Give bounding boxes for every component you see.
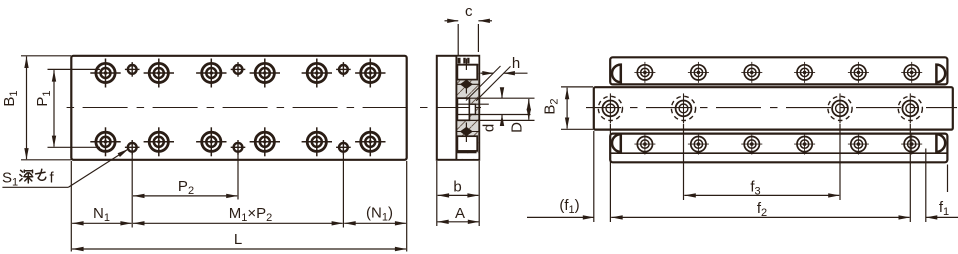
svg-text:f3: f3	[750, 179, 760, 198]
dimension B2 extension top	[561, 86, 593, 88]
counterbore hole bottom row 2	[144, 127, 174, 156]
extension line D top	[470, 97, 535, 99]
counterbore hole top row 2	[144, 59, 174, 88]
extension line right edge lower	[406, 161, 408, 252]
dimension M1xP2 line	[133, 222, 343, 224]
centerline right view	[586, 107, 957, 109]
svg-text:D: D	[509, 122, 526, 133]
section gray fill with hole cutouts	[456, 57, 478, 159]
counterbore hole top row 5	[302, 59, 332, 88]
dimension d line	[501, 89, 503, 99]
bottom rail screw 2	[688, 134, 709, 155]
counterbore hole bottom row 5	[302, 127, 332, 156]
top rail screw 2	[688, 62, 709, 83]
dimension P1 extension bottom	[48, 146, 101, 148]
S1 hole bottom row 2	[231, 140, 246, 155]
table hole 4	[898, 93, 922, 123]
svg-text:f: f	[50, 170, 55, 187]
rail end cap top-right	[936, 65, 945, 83]
extension line S1 hole 3	[342, 153, 344, 228]
dimension (N1) line	[344, 222, 406, 224]
top rail screw 6	[901, 62, 922, 83]
dimension (f1) line	[527, 216, 594, 218]
extension line step top	[457, 103, 488, 105]
dimension B2 extension bottom	[561, 128, 593, 130]
S1 hole bottom row 3	[336, 140, 351, 155]
extension line left edge lower	[70, 161, 72, 252]
center mark vertical top	[465, 59, 467, 71]
center mark vertical bottom	[465, 123, 467, 143]
top rail screw 3	[741, 62, 762, 83]
top rail screw 1	[634, 62, 655, 83]
horizontal centerline	[63, 107, 413, 109]
svg-text:(f1): (f1)	[559, 197, 579, 216]
bottom tapped hole diamond	[460, 127, 473, 136]
extension line table left edge	[593, 131, 595, 222]
top slot base line	[457, 64, 478, 66]
section body outline	[437, 56, 479, 160]
S1 hole top row 2	[231, 62, 246, 77]
S1 hole top row 3	[336, 62, 351, 77]
svg-text:B2: B2	[542, 98, 561, 114]
step notch in S1 hole	[469, 104, 475, 114]
dimension D line	[528, 99, 530, 120]
leader line to S1 hole	[68, 149, 128, 187]
center mark horizontal top diamond	[456, 83, 479, 85]
counterbore hole bottom row 1	[90, 127, 120, 156]
svg-text:f2: f2	[757, 200, 767, 219]
svg-text:b: b	[453, 179, 461, 196]
svg-text:A: A	[455, 205, 465, 222]
extension line d bottom	[457, 114, 530, 116]
svg-text:B1: B1	[1, 90, 20, 106]
top rail	[610, 57, 947, 84]
dimension f3 line	[684, 194, 839, 196]
svg-text:S1: S1	[2, 170, 18, 189]
extension line b/A right	[478, 161, 480, 226]
svg-text:P1: P1	[34, 90, 53, 106]
bottom counterbore cutout outline	[457, 136, 477, 151]
rail end cap bottom-left	[612, 134, 621, 152]
dimension P1 line	[53, 70, 55, 147]
dimension c extension left	[457, 24, 459, 55]
dimension L line	[72, 248, 406, 250]
bottom rail screw 3	[741, 134, 762, 155]
top counterbore cutout outline	[457, 65, 477, 80]
middle S1 hole cutout outline	[457, 98, 469, 120]
counterbore hole bottom row 4	[250, 127, 280, 156]
svg-text:d: d	[481, 124, 498, 132]
rail end cap bottom-right	[936, 134, 945, 152]
dimension f1 line	[926, 216, 958, 218]
leader underline for S1 depth f	[2, 186, 68, 188]
dimension B2 line	[566, 88, 568, 129]
svg-text:c: c	[465, 3, 473, 20]
extension line f1 right	[925, 149, 927, 223]
extension line S1 hole 2	[237, 153, 239, 200]
centerline middle view	[418, 107, 482, 109]
top tapped hole diamond	[460, 80, 473, 89]
extension line rail right end	[947, 165, 949, 193]
table hole 1	[598, 93, 622, 123]
white band at bottom	[457, 153, 479, 159]
section inner boundary line	[455, 56, 457, 160]
svg-text:L: L	[234, 231, 242, 248]
bottom inner line	[456, 151, 477, 153]
extension line table hole 3	[839, 124, 841, 200]
dimension h line left tail	[481, 72, 494, 74]
dimension c line right tail	[478, 20, 492, 22]
dimension b line	[438, 194, 479, 196]
h reference diagonal 2	[476, 66, 510, 100]
extension line table hole 4	[909, 124, 911, 222]
extension line table hole 1	[609, 124, 611, 222]
counterbore hole top row 4	[250, 59, 280, 88]
dimension B1 line	[26, 57, 28, 160]
bottom rail screw 1	[634, 134, 655, 155]
table hole 2	[671, 93, 695, 123]
counterbore hole top row 1	[90, 59, 120, 88]
extension line S1 hole 1	[131, 153, 133, 228]
rail end cap top-left	[612, 65, 621, 83]
section hatch lines	[456, 57, 478, 159]
middle table plate	[594, 87, 953, 129]
bottom rail screw 6	[901, 134, 922, 155]
counterbore hole top row 3	[196, 59, 226, 88]
dimension B1 extension bottom	[21, 159, 71, 161]
top rail screw 5	[848, 62, 869, 83]
svg-text:P2: P2	[178, 178, 194, 197]
bottom rail inner line	[611, 152, 947, 154]
top rail screw 4	[794, 62, 815, 83]
dimension c line left tail	[445, 20, 459, 22]
top slot bar 2	[463, 58, 465, 64]
dimension h line right tail	[503, 72, 527, 74]
counterbore hole top row 6	[355, 59, 385, 88]
dimension f2 line	[611, 216, 909, 218]
top slot bar 3	[467, 58, 469, 64]
bottom rail screw 5	[848, 134, 869, 155]
center mark horizontal bottom diamond	[456, 131, 479, 133]
svg-text:f1: f1	[939, 199, 949, 218]
bottom rail screw 4	[794, 134, 815, 155]
dimension N1 line	[72, 222, 131, 224]
bottom rail	[610, 134, 947, 163]
plate outline	[71, 56, 406, 160]
svg-text:h: h	[512, 55, 520, 72]
dimension A line	[437, 221, 479, 223]
dimension P2 line	[133, 195, 237, 197]
S1 hole bottom row 1	[125, 140, 140, 155]
S1 hole top row 1	[125, 62, 140, 77]
extension line table hole 2	[683, 124, 685, 200]
h reference diagonal 1	[466, 66, 501, 101]
extension line b/A left	[436, 161, 438, 226]
counterbore hole bottom row 6	[355, 127, 385, 156]
counterbore hole bottom row 3	[196, 127, 226, 156]
dimension B1 extension top	[21, 55, 71, 57]
extension line D bottom	[470, 119, 535, 121]
svg-text:M1×P2: M1×P2	[229, 205, 273, 224]
white band above slot base	[457, 57, 479, 64]
svg-text:(N1): (N1)	[366, 205, 393, 224]
table hole 3	[828, 93, 852, 123]
dimension c extension right	[477, 24, 479, 52]
top slot bar 1	[458, 58, 461, 64]
dimension P1 extension top	[48, 68, 101, 70]
svg-text:N1: N1	[93, 205, 110, 224]
